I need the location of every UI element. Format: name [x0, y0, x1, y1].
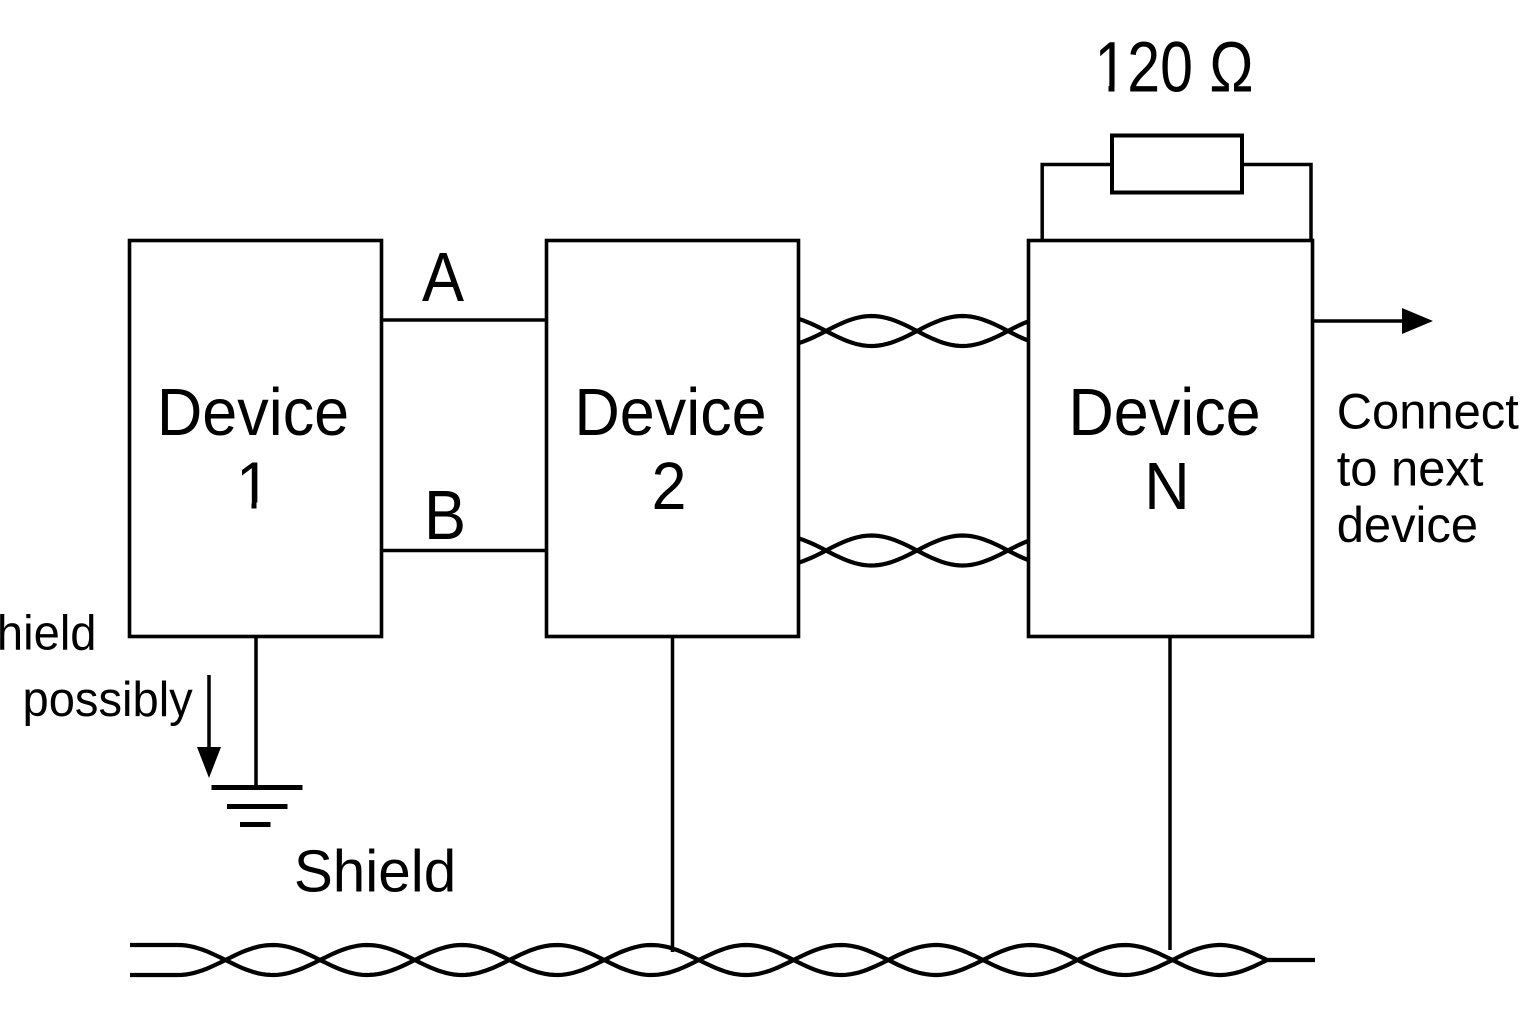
svg-text:Device: Device	[1068, 374, 1260, 449]
svg-text:Shield: Shield	[294, 839, 456, 904]
svg-text:B: B	[424, 477, 466, 555]
svg-text:120 Ω: 120 Ω	[1094, 27, 1253, 106]
svg-text:Connect: Connect	[1337, 384, 1519, 440]
svg-text:Shield: Shield	[0, 606, 96, 661]
svg-text:A: A	[422, 239, 465, 317]
svg-text:Device: Device	[574, 374, 766, 449]
svg-text:1: 1	[236, 448, 271, 523]
svg-text:possibly: possibly	[23, 672, 193, 727]
svg-text:2: 2	[652, 448, 687, 523]
svg-text:device: device	[1337, 498, 1478, 554]
svg-text:N: N	[1144, 448, 1189, 523]
svg-text:to next: to next	[1337, 441, 1484, 497]
svg-text:Device: Device	[157, 374, 349, 449]
